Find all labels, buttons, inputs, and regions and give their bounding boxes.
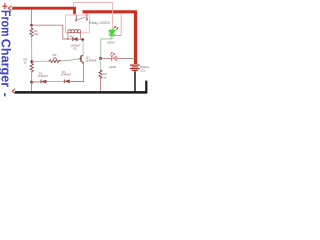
- transistor Q1: [81, 55, 84, 63]
- wire junction to LED1: [101, 58, 111, 60]
- svg-text:D3: D3: [73, 47, 77, 51]
- relay contact pin right: [86, 13, 88, 18]
- svg-text:Relay 12VDC: Relay 12VDC: [89, 21, 110, 25]
- input terminal arrow top: [8, 6, 11, 11]
- wire thick battery positive vertical: [134, 12, 137, 64]
- wire junction to R4: [100, 59, 102, 70]
- wire R4 to ground bus: [100, 79, 102, 91]
- svg-text:2N3904: 2N3904: [86, 59, 97, 63]
- wire from +bus down to node A: [31, 10, 33, 25]
- wire coil junction to Q1 collector: [82, 40, 84, 55]
- wire thick ground stub up: [145, 81, 147, 94]
- LED1 emission arrows: [110, 52, 115, 56]
- wire thick ground bus: [15, 91, 147, 94]
- svg-text:From: From: [0, 10, 13, 37]
- svg-text:1k: 1k: [103, 75, 107, 79]
- svg-text:LED1: LED1: [109, 65, 117, 69]
- wire D1 to D2: [46, 80, 64, 82]
- svg-text:LED2: LED2: [107, 41, 115, 45]
- battery B1 plates: [130, 65, 140, 70]
- LED1 red: [112, 55, 117, 61]
- wire thick stub into relay common: [73, 8, 76, 14]
- wire thick +bus to battery: [83, 10, 137, 13]
- LED2 emission arrows: [113, 26, 118, 30]
- diode D3 flyback: [73, 37, 83, 41]
- wire node to ground bus: [31, 82, 33, 91]
- wire LED1 to battery line: [117, 57, 135, 59]
- svg-text:-: -: [0, 93, 13, 97]
- wire thick +bus from charger: [12, 7, 76, 10]
- wire pink switched net top: [73, 3, 112, 30]
- wire coil-left to D3: [68, 38, 73, 40]
- LED2 green: [108, 28, 115, 39]
- resistor R4: [99, 70, 102, 80]
- wire green R3 to Q1 base: [61, 59, 80, 61]
- node coil-left junction: [67, 38, 69, 40]
- node coil-right junction dot: [81, 38, 84, 41]
- node base dot: [79, 58, 81, 60]
- diode D2: [41, 80, 46, 84]
- wire D2 to ground node: [32, 81, 41, 83]
- resistor R3: [48, 60, 61, 63]
- plus terminal mark: [2, 3, 7, 9]
- node A junction dot: [30, 24, 33, 27]
- wire pink net right drop: [120, 13, 122, 35]
- node LED junction dot: [99, 57, 102, 60]
- node diode-chain ground dot: [30, 81, 33, 84]
- wire R2 to ground node: [31, 72, 33, 82]
- svg-text:10k: 10k: [34, 32, 39, 36]
- node divider tap dot: [31, 60, 34, 63]
- svg-text:1k: 1k: [23, 61, 27, 65]
- wire battery negative pin: [134, 71, 136, 91]
- relay coil loops: [68, 30, 81, 33]
- wire Q1 emitter down: [70, 63, 84, 81]
- svg-text:1N4007: 1N4007: [38, 74, 49, 78]
- resistor R2: [30, 63, 33, 72]
- relay K1 box: [66, 15, 90, 33]
- relay contact circle left: [75, 20, 77, 22]
- svg-text:1N4007: 1N4007: [61, 73, 72, 77]
- relay contact pin left: [75, 15, 77, 20]
- resistor R1: [30, 27, 33, 37]
- wire node A to relay coil: [32, 25, 69, 39]
- relay coil pin left: [67, 32, 69, 40]
- relay contact circle right: [86, 19, 88, 21]
- svg-text:10k: 10k: [52, 56, 57, 60]
- svg-text:12V: 12V: [140, 68, 145, 72]
- relay contact blade: [77, 17, 86, 20]
- svg-text:Charger: Charger: [0, 39, 13, 87]
- relay coil pin right: [80, 32, 82, 40]
- diode D1: [64, 80, 69, 84]
- wire green LED2 cathode to junction: [101, 39, 112, 58]
- input terminal arrow bottom: [12, 89, 15, 94]
- wire green divider mid: [31, 37, 33, 61]
- wire green tap to R3: [32, 60, 48, 62]
